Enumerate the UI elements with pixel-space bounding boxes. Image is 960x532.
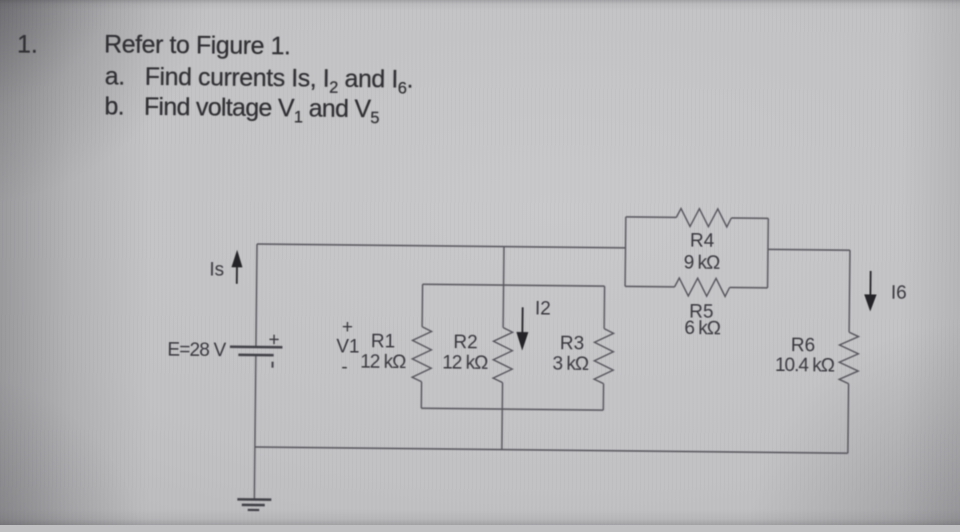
svg-text:9 kΩ: 9 kΩ	[684, 252, 721, 273]
svg-text:3 kΩ: 3 kΩ	[552, 354, 589, 375]
svg-text:6 kΩ: 6 kΩ	[684, 318, 721, 339]
svg-text:R6: R6	[791, 335, 816, 356]
svg-text:-: -	[341, 357, 348, 378]
svg-text:R4: R4	[690, 231, 715, 252]
svg-text:+: +	[268, 329, 279, 350]
svg-text:E=28 V: E=28 V	[167, 340, 226, 362]
svg-text:V1: V1	[336, 336, 359, 357]
svg-text:R2: R2	[453, 332, 478, 353]
svg-text:R3: R3	[560, 333, 585, 354]
svg-text:12 kΩ: 12 kΩ	[442, 352, 488, 373]
svg-text:12 kΩ: 12 kΩ	[360, 352, 406, 373]
svg-text:+: +	[342, 317, 353, 338]
svg-text:Is: Is	[209, 260, 224, 281]
svg-text:R1: R1	[371, 331, 396, 352]
svg-text:I6: I6	[891, 283, 907, 304]
svg-text:I2: I2	[535, 298, 551, 319]
svg-text:10.4 kΩ: 10.4 kΩ	[775, 355, 835, 377]
